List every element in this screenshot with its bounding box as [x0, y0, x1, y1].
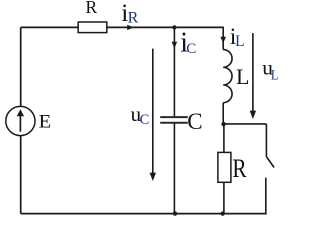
svg-text:C: C	[140, 112, 150, 128]
current arrow iL	[220, 37, 226, 43]
label iR	[121, 0, 138, 27]
svg-text:L: L	[236, 64, 249, 89]
switch: top contact wire	[265, 124, 267, 157]
wire: node B to switch (horizontal)	[223, 123, 266, 125]
switch: bottom contact wire	[265, 178, 267, 214]
node B junction dot (inductor/R2/switch)	[221, 122, 225, 126]
wire: inductor branch top stub	[222, 27, 224, 49]
label uC	[131, 102, 150, 128]
source E (circle with up arrow)	[6, 106, 35, 135]
svg-text:R: R	[232, 153, 246, 183]
wire: inductor bottom stub to node B	[222, 103, 224, 124]
voltage arrow uL	[250, 33, 256, 119]
wire: left vertical (through source E)	[20, 27, 22, 213]
junction dot (capacitor branch, bottom)	[173, 211, 177, 215]
svg-text:R: R	[86, 0, 98, 17]
svg-text:C: C	[186, 41, 196, 57]
label iL	[230, 24, 245, 50]
svg-text:R: R	[128, 9, 139, 26]
label uL	[262, 55, 278, 83]
inductor L coil	[223, 50, 232, 103]
node A junction dot (top of capacitor branch)	[172, 25, 176, 29]
junction dot (R2 branch, bottom)	[221, 211, 225, 215]
wire: capacitor branch upper	[173, 27, 175, 117]
svg-text:E: E	[39, 111, 52, 132]
wire: capacitor branch lower	[173, 123, 175, 214]
svg-text:L: L	[235, 33, 244, 50]
label iC	[180, 28, 196, 59]
wire: top horizontal (E+ to node A)	[21, 26, 224, 28]
resistor R2 (vertical)	[218, 152, 231, 182]
voltage arrow uC	[150, 49, 156, 181]
switch: blade (open)	[267, 157, 275, 168]
current arrow iR	[127, 25, 134, 30]
current arrow iC	[172, 42, 178, 48]
wire: bottom horizontal	[21, 213, 267, 215]
svg-text:C: C	[187, 109, 202, 134]
svg-text:L: L	[271, 67, 279, 83]
resistor R1 (top)	[78, 22, 107, 33]
wire: R2 branch vertical	[223, 124, 225, 214]
capacitor C plates	[160, 117, 188, 123]
